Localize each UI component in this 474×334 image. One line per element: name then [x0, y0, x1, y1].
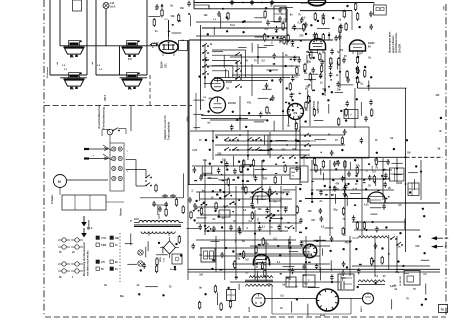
- switch unit inner edge: [200, 25, 202, 110]
- wire HT bus 2: [188, 271, 440, 273]
- nested selector wires: [212, 50, 290, 81]
- voltage marker 24V: [443, 6, 446, 10]
- output tube V1 EL84: [150, 37, 188, 68]
- svg-text:ECC83: ECC83: [228, 102, 236, 105]
- svg-text:8 6: 8 6: [70, 55, 74, 59]
- svg-text:Taste gedrückt: Taste gedrückt: [167, 122, 171, 140]
- speaker impedance labels: [56, 42, 159, 101]
- output transformer Tr2 secondary: [245, 280, 273, 286]
- legend separator dotted line: [119, 233, 121, 282]
- svg-text:0,25: 0,25: [364, 203, 369, 206]
- switch unit frame: [189, 40, 333, 185]
- svg-text:Rückwand: Rückwand: [47, 66, 49, 78]
- push-button legend symbols column: [58, 227, 93, 279]
- svg-text:10k: 10k: [170, 15, 175, 18]
- mains fuse box Si1: [170, 254, 182, 271]
- chassis boundary dash-dot line (left): [43, 0, 45, 316]
- svg-text:La1: La1: [110, 1, 115, 5]
- wire top bus 3: [202, 9, 287, 45]
- measured-voltages note: [389, 31, 402, 53]
- earth symbol (down arrow): [81, 219, 90, 237]
- terminal box output: [338, 274, 354, 290]
- svg-text:EM71: EM71: [361, 306, 363, 312]
- detector network: [342, 53, 370, 89]
- svg-text:1M: 1M: [407, 151, 410, 154]
- svg-text:Abgleich nur mit TA-: Abgleich nur mit TA-: [163, 115, 167, 140]
- svg-text:10k: 10k: [180, 7, 185, 10]
- svg-text:100: 100: [250, 196, 255, 199]
- AF driver tube V12 (dome): [368, 192, 385, 202]
- svg-text:6,3V: 6,3V: [341, 278, 346, 280]
- wire horizontal y88: [358, 84, 407, 88]
- rear panel note: [47, 66, 49, 78]
- chassis boundary dash-dot line (right): [445, 4, 447, 317]
- right AF dense extra: [335, 160, 384, 191]
- svg-text:220: 220: [217, 153, 222, 156]
- svg-text:Anschlußbuchse: Anschlußbuchse: [97, 104, 101, 129]
- filter block box: [201, 248, 215, 262]
- IF amp cluster mid: [265, 59, 299, 125]
- grid stopper parts under bus: [213, 11, 229, 21]
- IF can label box upper: [344, 110, 358, 119]
- wire step bus to output: [305, 199, 440, 204]
- switch contact column a: [202, 43, 209, 75]
- svg-text:8 4 2: 8 4 2: [87, 227, 93, 230]
- page reference box 78: [439, 305, 448, 313]
- rectifier tube V9 EZ80: [249, 294, 265, 313]
- valve socket V4 with radial pins: [288, 104, 304, 128]
- svg-text:EC92: EC92: [226, 81, 233, 84]
- svg-text:100: 100: [398, 182, 403, 185]
- wire HT bus 1: [188, 268, 440, 270]
- AF output driver tube V13: [254, 255, 270, 270]
- remote-connector annotation: [97, 104, 106, 129]
- output transformer Tr2 primary: [249, 276, 273, 278]
- bridge rectifier Gr1: [160, 237, 179, 262]
- svg-text:100: 100: [222, 159, 227, 162]
- dial lamp La1: [103, 1, 116, 9]
- svg-text:100: 100: [415, 245, 420, 248]
- speaker cabinet box 1 outline: [50, 0, 87, 75]
- svg-text:30p: 30p: [265, 242, 270, 245]
- svg-text:47k: 47k: [435, 94, 440, 97]
- svg-text:20 kΩ/V: 20 kΩ/V: [398, 43, 401, 53]
- remote connector block: [102, 129, 129, 192]
- wire main vertical x300: [299, 115, 301, 185]
- tube V6 ECC85 second half: [310, 39, 326, 54]
- connector label box right: [408, 183, 419, 196]
- switch contact column b: [235, 52, 242, 88]
- svg-text:30p: 30p: [307, 60, 312, 63]
- svg-text:0,25: 0,25: [192, 149, 197, 152]
- svg-text:47k: 47k: [208, 97, 213, 100]
- electrolytic filter caps: [188, 197, 197, 219]
- EM71 indicator label box: [386, 168, 405, 181]
- wire speaker bus upper: [60, 45, 160, 47]
- electrolytic capacitor C50: [341, 277, 344, 289]
- svg-text:1M: 1M: [199, 274, 202, 277]
- svg-text:2 8: 2 8: [128, 87, 132, 91]
- speaker cabinet box 2 outline: [96, 0, 147, 75]
- rectifier driver tube V14: [303, 244, 317, 258]
- loudspeaker LS4 (box2 lower): [120, 72, 148, 91]
- chassis boundary dashed line (bottom): [45, 316, 446, 318]
- power distribution cluster: [236, 240, 320, 290]
- svg-text:ECC85: ECC85: [301, 2, 309, 5]
- band switch contact grid row 1: [224, 137, 262, 141]
- wire main vertical x188: [187, 40, 189, 280]
- band switch contact grid row 3: [277, 155, 308, 159]
- tone control tube V8 (dome): [253, 192, 270, 202]
- loudspeaker LS2 (box1 lower): [60, 72, 87, 91]
- voltage reference box top right: [374, 3, 387, 16]
- svg-text:30p: 30p: [395, 271, 400, 274]
- wire EL84 anode riser: [159, 20, 169, 46]
- AF tube V3 (triode): [210, 97, 237, 113]
- svg-text:Autom.: Autom.: [120, 207, 123, 216]
- wire long bus y184: [188, 183, 302, 185]
- decoupling caps on top bus: [230, 0, 274, 6]
- pilot lamp La2: [138, 250, 143, 255]
- potentiometer P1: [300, 158, 308, 182]
- pickup connection box: [400, 271, 420, 287]
- svg-text:5,6M: 5,6M: [101, 245, 106, 247]
- tube section label: [186, 97, 207, 122]
- tone network zigzag: [352, 236, 388, 238]
- svg-text:30p: 30p: [333, 209, 338, 212]
- switch grid wiring: [215, 134, 345, 155]
- svg-text:47k: 47k: [345, 241, 350, 244]
- svg-text:EL84: EL84: [320, 314, 326, 317]
- connector switch and riser: [112, 106, 131, 131]
- socket annotation text: [312, 101, 318, 114]
- tafel boundary wires: [201, 116, 291, 119]
- IF can label box: [290, 168, 301, 179]
- svg-text:0,25: 0,25: [353, 188, 358, 191]
- connector lead-in arrows: [84, 148, 108, 161]
- pot box: [219, 210, 230, 217]
- svg-text:47k: 47k: [335, 183, 340, 186]
- svg-text:M: M: [58, 180, 61, 184]
- svg-text:1M: 1M: [367, 85, 370, 88]
- AF tube V2 (triode): [211, 78, 233, 91]
- svg-text:U 56: U 56: [101, 238, 107, 240]
- smoothing choke Dr1: [358, 280, 385, 285]
- svg-text:30p: 30p: [120, 295, 125, 298]
- svg-text:röhre EM71: röhre EM71: [316, 101, 318, 114]
- IF transformer Fi2 components: [264, 22, 297, 45]
- wiring fabric and minor RC components: [104, 1, 442, 316]
- section divider dashed vertical: [149, 75, 151, 106]
- connector annotation 2: [163, 115, 171, 140]
- svg-text:Tonabn.: Tonabn.: [51, 194, 54, 204]
- svg-text:8 6: 8 6: [128, 57, 132, 61]
- tube V7 EABC80 (dome symbol): [350, 40, 376, 55]
- heater wiring: [264, 278, 395, 314]
- EABC80 cathode chain resistors: [356, 56, 358, 88]
- ratio detector cluster: [304, 51, 341, 91]
- right AF cluster: [331, 157, 390, 199]
- IF transformer Fi1: [274, 6, 286, 22]
- svg-text:10k: 10k: [204, 14, 209, 17]
- svg-text:0,1A: 0,1A: [110, 5, 116, 9]
- svg-text:1M: 1M: [311, 219, 314, 222]
- svg-text:B250: B250: [160, 256, 162, 262]
- svg-text:10k: 10k: [258, 208, 263, 211]
- svg-text:10k: 10k: [337, 88, 342, 91]
- mains transformer Tr1: [130, 214, 183, 236]
- anode supply rail top right: [300, 3, 374, 31]
- aerial symbol (down arrow): [81, 216, 87, 227]
- output tube V10 EL84 II: [317, 289, 339, 317]
- svg-text:EL84: EL84: [160, 61, 164, 68]
- right-bottom switch contacts: [388, 235, 403, 270]
- wire top bus 2: [194, 5, 287, 10]
- svg-text:Tr: Tr: [130, 221, 132, 223]
- AVC feed component with arrow: [155, 4, 168, 22]
- svg-text:EZ80: EZ80: [249, 306, 251, 312]
- band switch contact grid row 2: [224, 147, 262, 151]
- connector block output wiring: [126, 160, 184, 213]
- svg-text:47k: 47k: [356, 165, 361, 168]
- svg-text:6 AW: 6 AW: [103, 95, 106, 101]
- tape connector box: [62, 195, 124, 210]
- svg-text:78: 78: [441, 308, 445, 312]
- section divider dash-dot (speaker bay): [44, 105, 192, 107]
- wire top bus 1: [194, 0, 310, 9]
- front-end component cluster: [299, 17, 341, 42]
- svg-text:47k: 47k: [247, 102, 252, 105]
- loudspeaker LS3 (box2 upper): [122, 40, 143, 61]
- svg-text:Fernbedienung: Fernbedienung: [102, 107, 106, 129]
- svg-text:von links nach rechts: von links nach rechts: [87, 250, 90, 276]
- magic eye tube V11 EM71: [361, 293, 374, 312]
- wire long bus y158: [300, 156, 443, 158]
- svg-text:10k: 10k: [236, 258, 241, 261]
- push-button legend checkboxes: [96, 236, 120, 271]
- AF preamp network cluster: [203, 156, 268, 182]
- tube V5 ECC85 (top, cut by page edge): [301, 0, 326, 6]
- wire grid (interconnections): [190, 21, 430, 283]
- charging elko box: [286, 275, 315, 287]
- svg-text:MA: MA: [292, 171, 296, 174]
- svg-text:220: 220: [283, 19, 288, 22]
- push-button legend text: [83, 241, 90, 276]
- right bottom cluster: [346, 260, 404, 288]
- svg-text:51,3: 51,3: [230, 24, 235, 27]
- svg-text:30-98 FUR: 30-98 FUR: [400, 276, 402, 286]
- wire main vertical x225: [224, 160, 226, 280]
- loudspeaker LS1 (box1 upper): [64, 40, 85, 57]
- svg-text:47k: 47k: [293, 112, 298, 115]
- power wiring cluster: [125, 243, 178, 269]
- volume control network: [198, 186, 288, 235]
- pilot lamp La3: [138, 261, 143, 266]
- junction box 2x2: [227, 290, 236, 301]
- wire vertical x407: [405, 88, 407, 252]
- Autom annotation: [120, 207, 123, 216]
- microphone jack M1: [51, 175, 108, 205]
- svg-text:220: 220: [299, 35, 304, 38]
- right switch box: [300, 127, 369, 158]
- svg-text:24V: 24V: [443, 6, 446, 10]
- svg-text:10k: 10k: [308, 210, 313, 213]
- svg-text:5 6: 5 6: [70, 87, 74, 91]
- svg-text:C51: C51: [165, 63, 168, 68]
- coupling network C/R at EL84 grid: [153, 15, 195, 43]
- output terminal arrows: [431, 236, 449, 248]
